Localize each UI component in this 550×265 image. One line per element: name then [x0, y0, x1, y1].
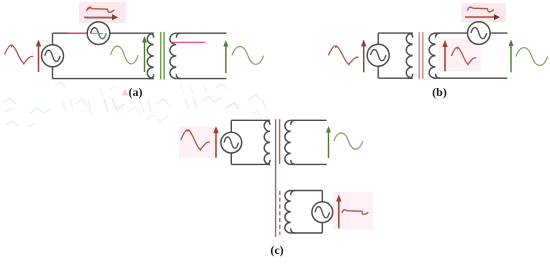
- input noise arrow (a): [36, 40, 41, 73]
- wire (c) left upper: [230, 120, 232, 132]
- wire (b) secondary bottom: [436, 77, 508, 79]
- signal sine across primary (a): [111, 46, 139, 64]
- noise source Vn (b) in series: [468, 22, 491, 45]
- wire (b) secondary top left: [436, 32, 468, 34]
- coupled noise waveform (b): [451, 47, 476, 64]
- output voltage arrow (a): [223, 40, 228, 73]
- noise source Vn (c): [312, 202, 333, 223]
- noise current arrow (b): [465, 14, 500, 20]
- wire (c) noise loop bottom: [291, 232, 323, 234]
- svg-text:(c): (c): [270, 243, 283, 257]
- faint artifact wash (b) secondary interior: [439, 38, 481, 71]
- transformer T3 primary coil (c): [264, 120, 270, 164]
- wire (b) left upper: [377, 33, 379, 44]
- output voltage arrow (c): [326, 126, 331, 158]
- wire (a) secondary bottom: [176, 78, 226, 80]
- input noise waveform (c): [181, 130, 210, 150]
- transformer T1 core (a) line 2: [163, 32, 165, 80]
- svg-text:(b): (b): [432, 85, 447, 99]
- wire (a) top left: [53, 32, 88, 34]
- noise waveform (c): [342, 210, 368, 215]
- transformer T3 core (c) short line: [279, 119, 281, 164]
- noise winding coil (c): [285, 191, 295, 234]
- coupled noise arrow in secondary (b): [442, 40, 447, 71]
- transformer T2 core (b) line 2: [422, 32, 424, 79]
- wire (a) top right: [110, 32, 154, 34]
- output signal sine (b): [516, 48, 548, 66]
- faint artifact wash (a) top arrow area: [79, 2, 126, 23]
- noise waveform above noise source (a): [87, 8, 115, 13]
- wire (c) left lower: [230, 153, 232, 164]
- wire (c) top: [231, 119, 270, 121]
- wire (c) noise loop top: [291, 190, 323, 192]
- primary voltage arrow (a): [142, 36, 147, 72]
- faint artifact wash (c) left waveform area: [179, 126, 216, 158]
- wire (c) noise loop right lower: [321, 223, 323, 233]
- transformer T2 secondary coil (b): [429, 33, 440, 78]
- transformer T2 core (b) line 1: [418, 32, 420, 79]
- faint artifact wash (b) top arrow area: [461, 3, 506, 22]
- transformer T1 primary coil (a): [147, 33, 153, 78]
- wire (b) bottom: [378, 77, 413, 79]
- output signal sine (a): [232, 46, 264, 64]
- transformer T3 secondary coil (c): [285, 120, 295, 164]
- input noise arrow (b): [361, 39, 366, 72]
- noise source Vn (a) in series: [87, 22, 110, 45]
- red emphasis tick on noise waveform (a): [88, 7, 92, 9]
- signal source Vs (c): [221, 132, 242, 153]
- faint artifact wash (c) bottom noise area: [333, 192, 373, 230]
- noise current arrow (a): [84, 14, 118, 20]
- wire (a) left upper: [52, 33, 54, 45]
- green-red tint on noise source sine (a): [90, 33, 106, 38]
- wire (b) left lower: [377, 66, 379, 78]
- output voltage arrow (b): [509, 40, 514, 73]
- wire (c) secondary bottom: [291, 163, 327, 165]
- transformer T3 core (c) long line: [275, 119, 277, 237]
- wire (c) bottom: [231, 163, 270, 165]
- svg-text:(a): (a): [129, 85, 143, 99]
- red marker line in secondary (a): [171, 41, 205, 43]
- signal source Vs (b): [367, 44, 389, 66]
- noise waveform above noise source (b): [468, 7, 494, 12]
- wire (a) bottom: [53, 78, 154, 80]
- output signal sine (c): [334, 133, 363, 149]
- signal source Vs (a): [42, 45, 64, 67]
- wire (a) secondary top: [176, 32, 226, 34]
- transformer T1 core (a) line 1: [160, 32, 162, 80]
- wire (b) top: [378, 32, 413, 34]
- artifact pink triangle near label (a): [122, 89, 129, 96]
- wire (b) secondary top right: [490, 32, 507, 34]
- transformer T1 secondary coil (a): [170, 33, 181, 78]
- faint background artifacts (decorative): [3, 82, 266, 127]
- wire (c) secondary top: [291, 119, 327, 121]
- electrostatic shield dashed line (c): [279, 191, 281, 235]
- wire (c) noise loop right upper: [321, 191, 323, 202]
- red noise overlay on wire (a): [68, 32, 88, 34]
- input noise waveform (b): [328, 46, 358, 65]
- input noise arrow (c): [213, 126, 218, 158]
- wire (a) left lower: [52, 67, 54, 79]
- transformer T2 primary coil (b): [406, 33, 412, 78]
- noise voltage arrow (c): [336, 195, 341, 229]
- input noise waveform (a): [5, 45, 34, 64]
